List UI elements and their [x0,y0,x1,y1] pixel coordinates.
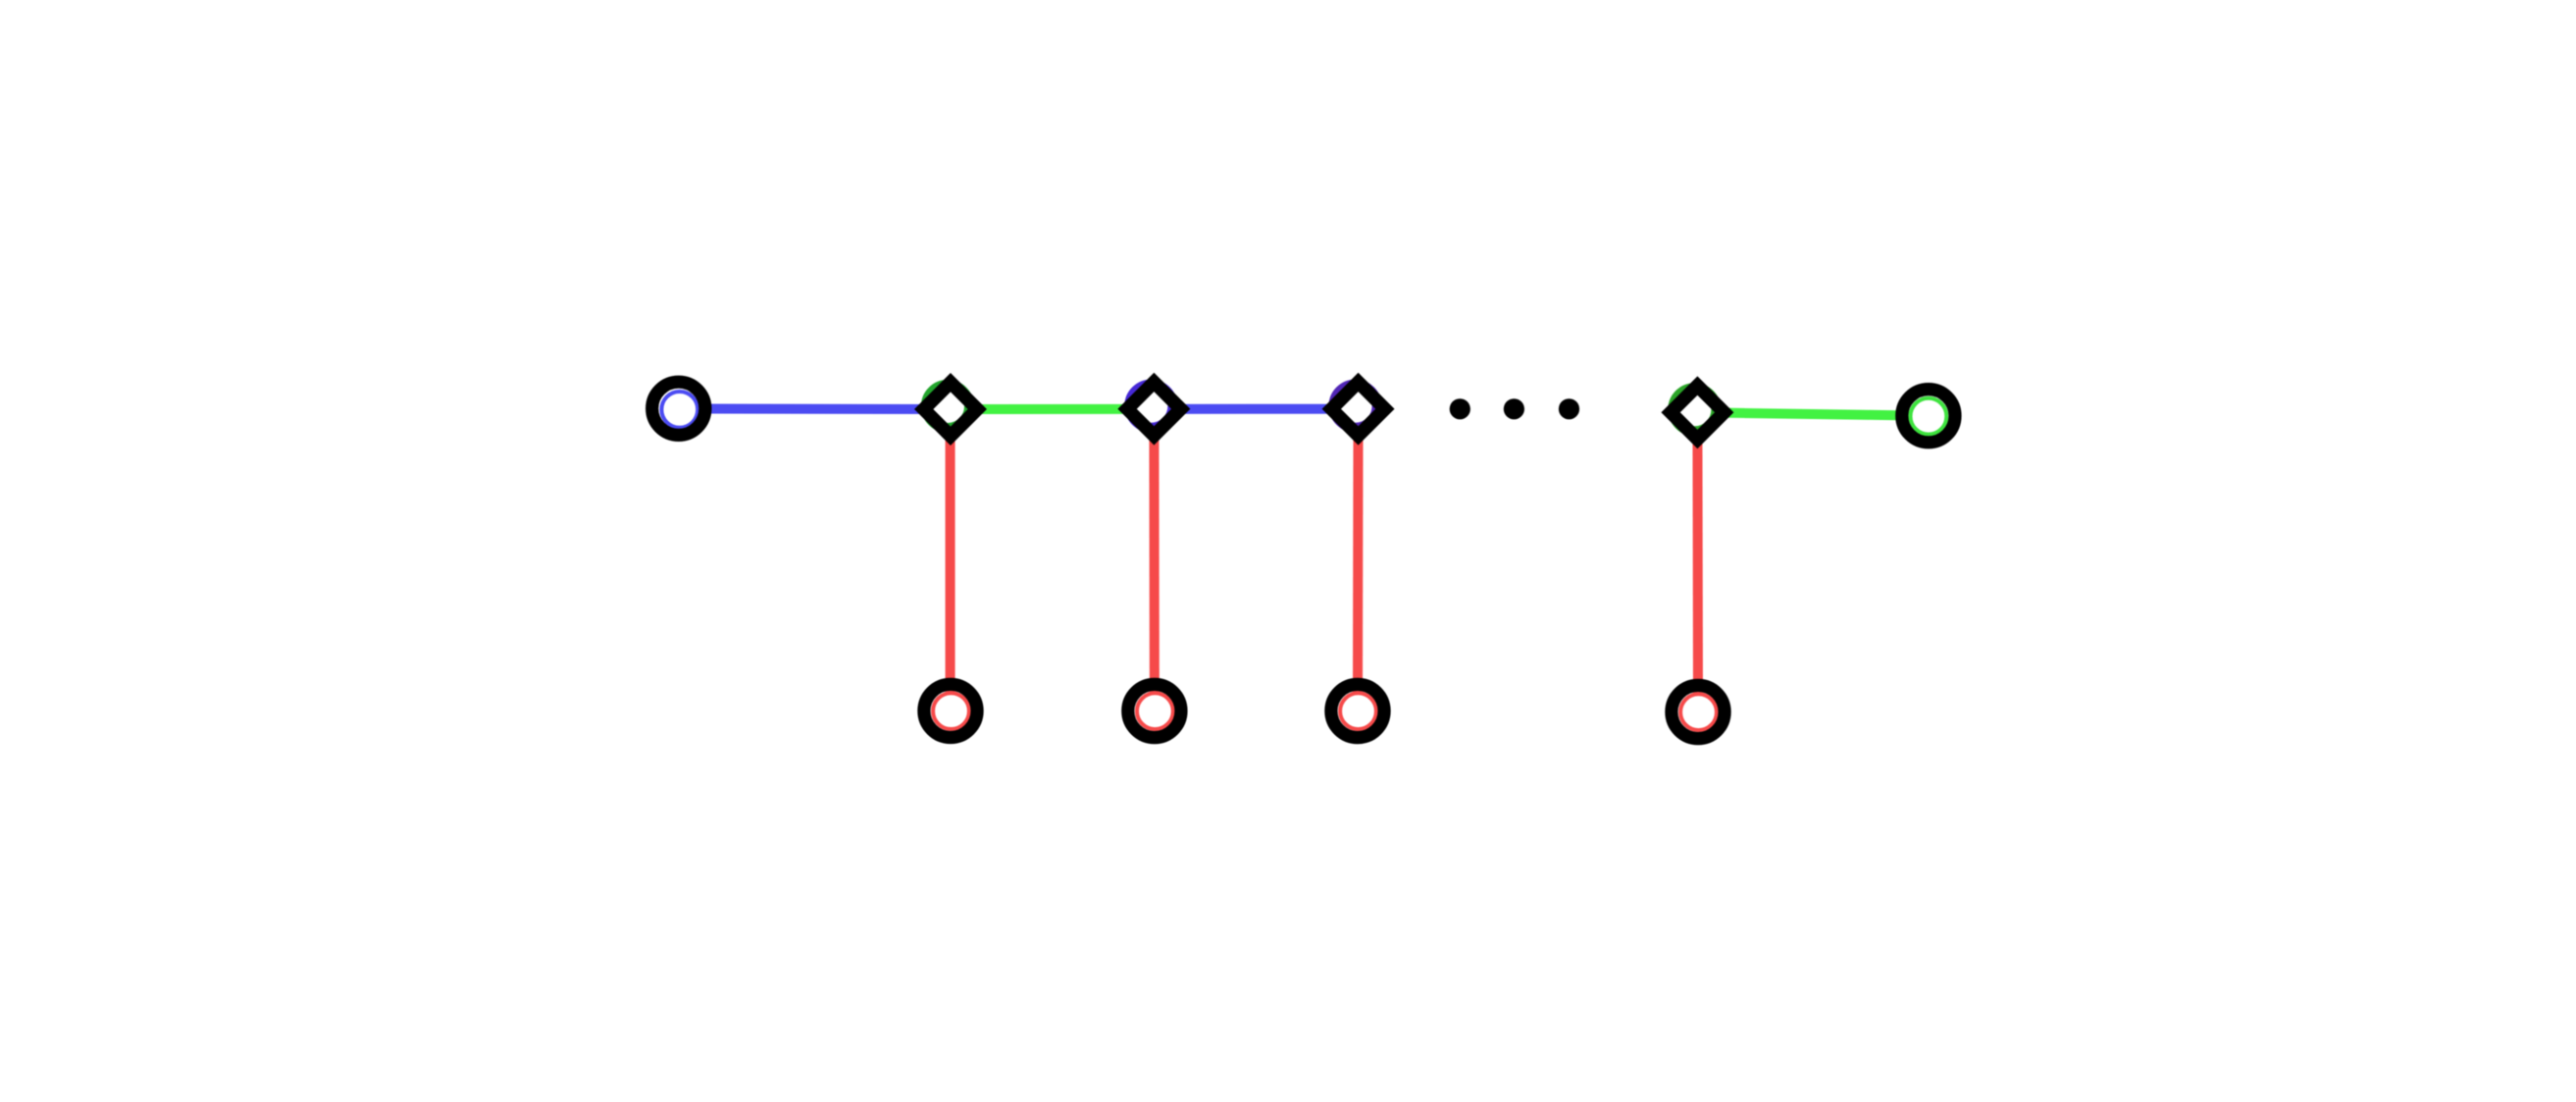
edge green: diamond 1 to diamond 2 [951,404,1154,414]
edge green: diamond 4 to right node [1697,412,1929,415]
diamond marker 4 [1671,386,1725,440]
hidden node ring behind diamond 4 (green) [1673,388,1716,431]
edge red: diamond 2 to leaf 2 [1149,409,1159,711]
edge blue: diamond 2 to diamond 3 [1154,404,1358,414]
diamond marker 1 [924,383,978,437]
right end node (green ring output) [1902,390,1955,443]
ellipsis dot 1 [1450,398,1470,419]
hidden node ring behind diamond 2 (indigo) [1129,385,1172,428]
leaf node 3 (red ring) [1331,684,1384,737]
edge red: diamond 4 to leaf 4 [1692,412,1703,711]
hidden node ring behind diamond 1 (green) [926,385,969,428]
leaf node 2 (red ring) [1128,684,1181,737]
hidden node ring behind diamond 3 (violet) [1334,385,1377,428]
ellipsis dot 3 [1559,398,1579,419]
left end node (blue ring input) [652,382,705,435]
edge red: diamond 3 to leaf 3 [1353,409,1364,711]
ellipsis dot 2 [1504,398,1524,419]
diamond marker 3 [1331,382,1385,436]
edge blue: left node to diamond 1 [679,404,951,415]
leaf node 1 (red ring) [924,684,977,737]
leaf node 4 (red ring) [1672,685,1725,738]
diamond marker 2 [1127,382,1181,436]
edge red: diamond 1 to leaf 1 [946,409,955,710]
